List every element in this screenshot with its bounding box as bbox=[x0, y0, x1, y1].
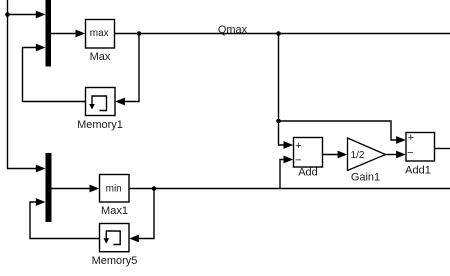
wire left input vertical bbox=[8, 0, 37, 169]
arrowhead Gain1 input bbox=[338, 151, 348, 159]
block Add bbox=[294, 138, 323, 168]
svg-text:−: − bbox=[295, 154, 301, 166]
arrowhead Mux1 input1 bbox=[36, 11, 46, 19]
svg-text:Qmax: Qmax bbox=[218, 24, 248, 36]
svg-text:1/2: 1/2 bbox=[351, 150, 365, 161]
wire Add1 output bbox=[435, 148, 450, 150]
svg-text:Memory5: Memory5 bbox=[92, 255, 138, 267]
svg-text:min: min bbox=[106, 184, 122, 195]
arrowhead Memory1 input bbox=[115, 98, 125, 106]
node junction to Add bbox=[276, 31, 281, 36]
wire Qmin line bbox=[129, 188, 450, 190]
block Memory5 bbox=[100, 224, 130, 252]
wire Qmax down to Add plus bbox=[279, 34, 285, 146]
wire Gain1 to Add1 minus bbox=[386, 154, 398, 156]
svg-text:Max1: Max1 bbox=[101, 205, 128, 217]
block Max1 (min) bbox=[100, 175, 130, 203]
svg-text:−: − bbox=[407, 147, 413, 159]
wire Memory1 output loop to Mux input2 bbox=[23, 48, 86, 102]
block Max bbox=[86, 20, 115, 49]
wire Memory5 output loop to Mux2 input2 bbox=[30, 202, 100, 239]
svg-text:Memory1: Memory1 bbox=[77, 119, 123, 131]
wire Qmin up to Add minus bbox=[280, 160, 285, 189]
wire branch to Add1 plus bbox=[279, 121, 398, 140]
svg-text:Add1: Add1 bbox=[405, 165, 431, 177]
arrowhead Mux input2 bbox=[36, 44, 46, 52]
svg-text:Add: Add bbox=[298, 167, 318, 179]
arrowhead Max input bbox=[76, 30, 86, 38]
node junction feedback Memory5 bbox=[152, 186, 157, 191]
arrowhead Add1 minus input bbox=[396, 151, 406, 159]
block Add1 bbox=[406, 133, 435, 162]
arrowhead Memory5 input bbox=[129, 235, 139, 243]
gain Gain1 triangle bbox=[348, 138, 386, 171]
svg-text:max: max bbox=[90, 28, 109, 39]
svg-text:+: + bbox=[408, 132, 414, 144]
block Memory1 bbox=[86, 88, 116, 116]
wire Memory5 feedback down bbox=[139, 189, 154, 239]
svg-text:Gain1: Gain1 bbox=[351, 172, 380, 184]
node junction top-left bbox=[5, 12, 10, 17]
node junction feedback Memory1 bbox=[137, 31, 142, 36]
arrowhead Mux2 input2 bbox=[36, 198, 46, 206]
wire Mux to Max bbox=[51, 33, 76, 35]
arrowhead Mux2 input1 bbox=[36, 165, 46, 173]
node junction to Add1 bbox=[276, 119, 281, 124]
wire Qmax line bbox=[115, 33, 450, 35]
wire Memory1 feedback down bbox=[125, 34, 140, 102]
svg-text:+: + bbox=[295, 140, 301, 152]
icon Memory5 bbox=[106, 231, 120, 245]
wire Mux2 to min bbox=[52, 188, 91, 190]
arrowhead min input bbox=[90, 185, 100, 193]
svg-text:Max: Max bbox=[90, 51, 111, 63]
mux Max1 (bar) bbox=[46, 153, 52, 222]
wire to Mux1 input1 bbox=[8, 14, 37, 16]
icon Memory1 bbox=[92, 96, 107, 111]
wire Add to Gain1 bbox=[323, 154, 340, 156]
arrowhead Add1 plus input bbox=[396, 136, 406, 144]
arrowhead Add plus input bbox=[284, 141, 294, 149]
mux Mux (bar) bbox=[46, 0, 52, 67]
arrowhead Add minus input bbox=[284, 156, 294, 164]
